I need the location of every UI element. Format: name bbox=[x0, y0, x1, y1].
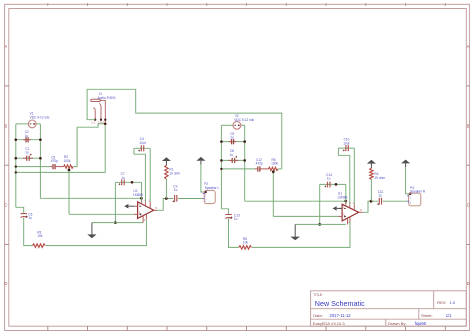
svg-text:Speaker L: Speaker L bbox=[205, 186, 220, 190]
junction dot J1 sleeve tap bbox=[104, 123, 107, 126]
wire R1 down to output node bbox=[165, 179, 167, 199]
wire input line H1 stage1 bbox=[16, 166, 50, 168]
svg-text:faja66: faja66 bbox=[415, 321, 427, 326]
svg-text:Sheet:: Sheet: bbox=[421, 313, 433, 318]
wire C7 line bbox=[115, 181, 141, 183]
capacitor C5 bbox=[50, 164, 63, 169]
junction dot H1 at left rail bbox=[15, 165, 17, 167]
ground GND4 (above speaker L) bbox=[196, 157, 205, 165]
wire output to C3 bbox=[158, 199, 174, 211]
capacitor C10 bbox=[343, 145, 348, 151]
svg-text:470p: 470p bbox=[51, 159, 58, 163]
pin numbers U2 bbox=[139, 199, 158, 222]
svg-text:2017-11-12: 2017-11-12 bbox=[330, 313, 352, 318]
row ticks left and right bbox=[5, 86, 470, 245]
resistor R3 bbox=[33, 244, 46, 248]
svg-text:1u: 1u bbox=[230, 153, 234, 157]
capacitor C12 bbox=[255, 166, 268, 171]
wire R3 line to op-amp pin7 bbox=[46, 219, 147, 245]
svg-text:Date:: Date: bbox=[313, 313, 323, 318]
wire right rail stage2 bbox=[244, 125, 246, 201]
ground GND7 (above R4) bbox=[367, 160, 376, 168]
ground GND6 (pin2 arrow stage2) bbox=[333, 206, 343, 211]
svg-text:EasyEDA V4.10.3: EasyEDA V4.10.3 bbox=[313, 321, 346, 326]
junction dots C8 bridge bbox=[220, 159, 223, 162]
svg-text:10 ohm: 10 ohm bbox=[374, 176, 385, 180]
capacitor C8 bbox=[228, 156, 238, 163]
svg-text:A: A bbox=[467, 44, 470, 49]
svg-text:10uf: 10uf bbox=[139, 141, 145, 145]
speaker P4 bbox=[407, 193, 421, 206]
wire jog to C13 bbox=[221, 209, 228, 215]
svg-text:1u: 1u bbox=[174, 188, 178, 192]
junction dot H198 end bbox=[140, 197, 143, 200]
junction dot speaker R pin1 bbox=[409, 193, 412, 196]
svg-text:1u: 1u bbox=[234, 217, 238, 221]
capacitor C7 bbox=[119, 180, 125, 186]
wire V1 right lead bbox=[36, 123, 40, 125]
wire output to C11 bbox=[363, 201, 379, 212]
svg-text:1u: 1u bbox=[25, 151, 29, 155]
wire J1 ground link bbox=[87, 89, 95, 119]
wire pin4 line bbox=[92, 222, 143, 224]
svg-text:LM386: LM386 bbox=[338, 196, 348, 200]
wire C13 down to R6 line bbox=[229, 218, 239, 247]
resistor R5 bbox=[268, 167, 278, 170]
row letters A B C D left bbox=[4, 44, 7, 286]
wire +input line bbox=[69, 213, 134, 215]
wire C14 line bbox=[320, 183, 346, 185]
resistor R2 bbox=[64, 165, 74, 168]
capacitor C4 bbox=[138, 145, 143, 151]
wire C14 right down to pin1 stage2 bbox=[345, 184, 347, 204]
svg-text:1.0: 1.0 bbox=[450, 300, 456, 305]
wire C7 right down to pin1 bbox=[141, 182, 143, 202]
svg-text:C: C bbox=[467, 203, 470, 208]
wire C11 to speaker R bbox=[383, 200, 408, 202]
wire C4 line bbox=[134, 147, 150, 149]
svg-text:Speaker R: Speaker R bbox=[410, 189, 426, 193]
capacitor C13 bbox=[225, 215, 232, 219]
wire C1 bridge bbox=[16, 157, 41, 159]
ground GND8 (above speaker R) bbox=[401, 160, 410, 168]
svg-text:10k: 10k bbox=[37, 234, 43, 238]
wire C8 bridge bbox=[221, 159, 244, 161]
title block bbox=[311, 291, 467, 326]
audio jack J1 bbox=[91, 99, 107, 123]
wire C2 bridge bbox=[16, 139, 41, 141]
wire right rail stage1 bbox=[39, 124, 41, 198]
row letters A B C D right bbox=[467, 44, 470, 286]
junction dot input at left rail stage2 bbox=[220, 168, 222, 170]
capacitor C1 bbox=[23, 154, 33, 161]
wire input line stage2 bbox=[221, 168, 255, 170]
wire C14 left down to pin4 line stage2 bbox=[319, 184, 321, 224]
wire C10 right down to pin6 stage2 bbox=[353, 148, 355, 205]
wire left rail stage2 bbox=[220, 125, 222, 209]
svg-text:A: A bbox=[4, 44, 7, 49]
ground GND1 (below op-amp) bbox=[87, 223, 96, 239]
svg-text:New Schematic: New Schematic bbox=[315, 299, 365, 308]
svg-text:100k: 100k bbox=[64, 159, 71, 163]
wire H198 stage1 bbox=[40, 197, 141, 199]
svg-text:1u: 1u bbox=[28, 216, 32, 220]
wire C9 bridge bbox=[221, 141, 244, 143]
junction dot output node bbox=[165, 197, 168, 200]
junction dot output node stage2 bbox=[370, 200, 373, 203]
resistor R1 bbox=[165, 165, 168, 179]
junction dots C2 bridge bbox=[15, 138, 18, 141]
wire H201 stage2 bbox=[245, 200, 346, 202]
wire +input line stage2 bbox=[273, 215, 338, 217]
svg-text:Drawn By:: Drawn By: bbox=[388, 321, 406, 326]
resistor R4 bbox=[370, 168, 373, 179]
svg-text:3 4 5: 3 4 5 bbox=[98, 120, 104, 124]
ground GND5 (below op-amp stage2) bbox=[290, 224, 300, 240]
svg-text:D: D bbox=[4, 281, 7, 286]
wire R5 out hook bbox=[278, 168, 282, 170]
junction dot speaker L pin1 bbox=[204, 191, 207, 194]
wire C4 right down to pin6 bbox=[149, 148, 151, 202]
svg-text:1u: 1u bbox=[121, 176, 125, 180]
wire V2 left lead bbox=[221, 124, 233, 126]
svg-text:1u: 1u bbox=[327, 177, 331, 181]
wire C10 left jog down to pin8 stage2 bbox=[338, 148, 349, 205]
svg-text:Audio-PJ001: Audio-PJ001 bbox=[98, 96, 116, 100]
svg-text:C: C bbox=[4, 203, 7, 208]
wire C4 left jog down to pin8 bbox=[134, 148, 146, 202]
junction dots C9 bridge bbox=[220, 140, 223, 143]
wire C6 down to R3 line bbox=[24, 217, 33, 245]
voltage source V2 bbox=[233, 121, 241, 129]
svg-text:D: D bbox=[467, 281, 470, 286]
capacitor C14 bbox=[324, 182, 330, 188]
svg-text:1u: 1u bbox=[25, 134, 29, 138]
wire jog to C6 bbox=[16, 207, 24, 213]
svg-text:100k: 100k bbox=[271, 162, 278, 166]
svg-text:B: B bbox=[467, 124, 470, 129]
wire long link to stage2 bbox=[87, 89, 282, 169]
svg-text:VDC 9-12 vdc: VDC 9-12 vdc bbox=[30, 116, 50, 120]
wire H2 stage1 to J1 sleeve bbox=[16, 124, 105, 173]
wire R2 out to J1 hook bbox=[73, 124, 105, 167]
wire speaker R top pin to ground bbox=[406, 167, 410, 194]
junction dot C14L at pin4 line bbox=[318, 223, 321, 226]
junction dots C1 bridge bbox=[15, 157, 18, 160]
svg-text:1 2: 1 2 bbox=[91, 120, 95, 124]
junction dot R5 tap bbox=[272, 170, 275, 173]
svg-text:TITLE:: TITLE: bbox=[313, 293, 323, 297]
svg-text:1/1: 1/1 bbox=[446, 313, 452, 318]
op-amp U2 LM386 bbox=[134, 202, 158, 223]
wire C3 to speaker bbox=[178, 198, 203, 200]
junction dot C7L at pin4 line bbox=[114, 221, 117, 224]
wire R6 line to op-amp pin7 stage2 bbox=[252, 221, 350, 247]
capacitor C3 bbox=[173, 195, 177, 202]
capacitor C6 bbox=[21, 214, 28, 218]
wire C10 line bbox=[338, 147, 354, 149]
wire left rail stage1 bbox=[15, 124, 17, 207]
resistor R6 bbox=[239, 246, 252, 250]
wire R5 tap vertical to +input stage2 bbox=[272, 170, 274, 216]
column ticks bottom bbox=[48, 326, 446, 330]
svg-text:10uf: 10uf bbox=[343, 141, 349, 145]
svg-text:VDC 9-12 vdc: VDC 9-12 vdc bbox=[234, 118, 254, 122]
wire pin4 line stage2 bbox=[295, 223, 346, 225]
svg-text:10k: 10k bbox=[243, 241, 249, 245]
op-amp U1 LM386 bbox=[339, 204, 363, 224]
wire R4 down to output node stage2 bbox=[370, 179, 372, 201]
svg-text:REV:: REV: bbox=[437, 300, 446, 305]
pin numbers U1 bbox=[343, 201, 362, 224]
speaker P2 bbox=[203, 190, 216, 203]
svg-text:LM386: LM386 bbox=[133, 193, 143, 197]
junction dot H201 end bbox=[344, 200, 347, 203]
capacitor C11 bbox=[377, 198, 381, 205]
wire C7 left down to pin4 line bbox=[114, 182, 116, 222]
junction dot H2 at left rail bbox=[15, 171, 17, 173]
junction dot R2 tap bbox=[68, 169, 71, 172]
ground GND3 (above R1) bbox=[162, 157, 171, 165]
capacitor C9 bbox=[229, 139, 237, 144]
wire V2 right lead bbox=[241, 124, 245, 126]
svg-text:470p: 470p bbox=[256, 162, 263, 166]
voltage source V1 bbox=[28, 120, 36, 128]
wire speaker L top pin to ground bbox=[201, 165, 205, 192]
svg-text:1u: 1u bbox=[230, 136, 234, 140]
column ticks top bbox=[48, 3, 446, 6]
junction dot C14 line bbox=[335, 183, 338, 186]
wire R2 tap vertical to +input bbox=[68, 168, 70, 214]
svg-text:B: B bbox=[4, 124, 7, 129]
capacitor C2 bbox=[23, 137, 31, 142]
ground GND2 (pin2 arrow) bbox=[124, 204, 134, 209]
svg-text:10 ohm: 10 ohm bbox=[169, 171, 180, 175]
junction dot C7 line bbox=[131, 181, 134, 184]
svg-text:1u: 1u bbox=[378, 194, 382, 198]
wire V1 left lead bbox=[16, 123, 28, 125]
